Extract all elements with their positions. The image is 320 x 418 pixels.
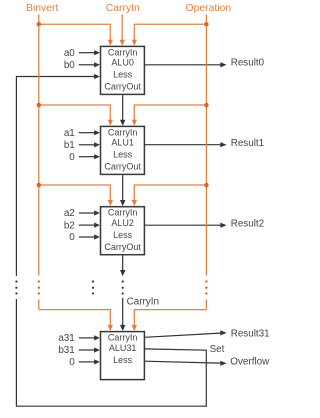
ALU block U0 <box>101 46 145 94</box>
ellipsis carry chain <box>122 280 124 282</box>
svg-text:CarryIn: CarryIn <box>108 127 138 137</box>
wire Overflow output <box>144 361 220 363</box>
junction Binvert branch ALU2 <box>37 183 42 188</box>
svg-text:b1: b1 <box>64 140 75 151</box>
wire Operation vertical <box>205 15 207 310</box>
svg-text:Result31: Result31 <box>231 329 270 340</box>
svg-text:a1: a1 <box>64 128 75 139</box>
ellipsis left feedback wire <box>15 276 18 299</box>
svg-text:Binvert: Binvert <box>26 3 58 14</box>
svg-text:ALU31: ALU31 <box>109 343 137 353</box>
svg-text:CarryIn: CarryIn <box>108 208 138 218</box>
wire Operation branch to ALU0 <box>134 24 206 40</box>
wire a0 into ALU0 <box>79 52 94 54</box>
svg-text:ALU2: ALU2 <box>111 218 134 228</box>
svg-text:Result0: Result0 <box>231 58 265 69</box>
svg-text:ALU1: ALU1 <box>111 138 134 148</box>
svg-text:ALU0: ALU0 <box>111 58 134 68</box>
svg-text:a0: a0 <box>64 48 75 59</box>
ellipsis Binvert wire <box>38 280 40 282</box>
svg-text:b0: b0 <box>64 60 75 71</box>
svg-text:0: 0 <box>69 357 75 368</box>
svg-text:Less: Less <box>113 70 133 80</box>
svg-text:CarryIn: CarryIn <box>106 3 140 14</box>
wire Binvert branch to ALU2 <box>39 185 111 201</box>
wire 0 into ALU1 <box>79 156 94 158</box>
wire CarryOut ALU0 to CarryIn ALU1 <box>122 94 124 120</box>
ALU block U31 <box>101 332 145 380</box>
wire Operation branch to ALU31 <box>134 310 206 326</box>
wire a1 into ALU1 <box>79 132 94 134</box>
svg-text:b2: b2 <box>64 220 75 231</box>
svg-text:a2: a2 <box>64 208 75 219</box>
wire CarryIn into ALU0 <box>121 15 123 41</box>
wire Operation branch to ALU2 <box>134 185 206 201</box>
svg-text:CarryIn: CarryIn <box>108 47 138 57</box>
wire Result2 output <box>144 224 220 226</box>
ellipsis Operation wire <box>205 280 207 282</box>
junction Operation branch ALU0 <box>204 22 209 27</box>
wire Result31 output <box>144 333 220 337</box>
svg-text:CarryOut: CarryOut <box>104 242 141 252</box>
wire Result1 output <box>144 144 220 146</box>
svg-text:0: 0 <box>69 152 75 163</box>
wire a31 into ALU31 <box>79 337 94 339</box>
junction Binvert branch ALU0 <box>37 22 42 27</box>
wire b0 into ALU0 <box>79 64 94 66</box>
wire Binvert branch to ALU1 <box>39 105 111 121</box>
ALU block U1 <box>101 126 145 174</box>
wire Binvert vertical <box>38 15 40 310</box>
svg-text:Set: Set <box>210 344 225 355</box>
svg-text:Operation: Operation <box>185 3 231 14</box>
wire 0 into ALU31 <box>79 361 94 363</box>
svg-text:Overflow: Overflow <box>230 356 270 367</box>
wire Set loop from ALU31 Set output to ALU0 Less input <box>16 77 206 407</box>
svg-text:0: 0 <box>69 232 75 243</box>
junction Binvert branch ALU1 <box>37 103 42 108</box>
wire Binvert branch to ALU0 <box>39 24 111 40</box>
svg-text:a31: a31 <box>58 333 75 344</box>
svg-text:Less: Less <box>113 150 133 160</box>
wire Operation branch to ALU1 <box>134 105 206 121</box>
svg-text:Less: Less <box>113 355 133 365</box>
wire 0 into ALU2 <box>79 236 94 238</box>
wire b2 into ALU2 <box>79 224 94 226</box>
wire Binvert branch to ALU31 <box>39 310 111 326</box>
ellipsis omitted ALUs <box>92 280 94 282</box>
svg-text:CarryOut: CarryOut <box>104 82 141 92</box>
wire CarryOut ALU1 to CarryIn ALU2 <box>122 174 124 200</box>
wire CarryIn into ALU31 <box>122 298 124 325</box>
svg-text:CarryOut: CarryOut <box>104 162 141 172</box>
wire CarryOut ALU2 down to ellipsis <box>122 255 124 271</box>
wire a2 into ALU2 <box>79 212 94 214</box>
svg-text:CarryIn: CarryIn <box>108 333 138 343</box>
junction Operation branch ALU2 <box>204 183 209 188</box>
svg-text:CarryIn: CarryIn <box>127 297 159 308</box>
ALU block U2 <box>101 207 145 255</box>
svg-text:Result1: Result1 <box>231 138 265 149</box>
wire b31 into ALU31 <box>79 349 94 351</box>
svg-text:Result2: Result2 <box>231 218 264 229</box>
svg-text:Less: Less <box>113 230 133 240</box>
wire Result0 output <box>144 64 220 66</box>
wire b1 into ALU1 <box>79 144 94 146</box>
junction Operation branch ALU1 <box>204 103 209 108</box>
svg-text:b31: b31 <box>58 345 75 356</box>
